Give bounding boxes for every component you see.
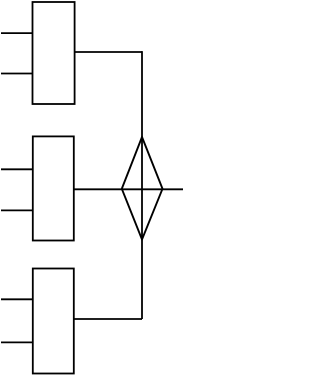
wire input C2 to block B3 xyxy=(1,341,33,343)
wire input B1 to block B2 xyxy=(1,168,33,170)
block B1 xyxy=(33,2,75,104)
wire input A2 to block B1 xyxy=(1,73,33,75)
wire output of B2 through junction to right edge xyxy=(74,188,183,190)
wire input C1 to block B3 xyxy=(1,298,33,300)
wire input B2 to block B2 xyxy=(1,209,33,211)
block B3 xyxy=(33,269,74,374)
wire input A1 to block B1 xyxy=(1,32,33,34)
wire output of B3 xyxy=(74,318,142,320)
block B2 xyxy=(33,136,74,240)
junction diamond D1 xyxy=(122,137,163,240)
wire output of B1 xyxy=(75,51,142,53)
wire vertical trunk xyxy=(141,51,143,319)
